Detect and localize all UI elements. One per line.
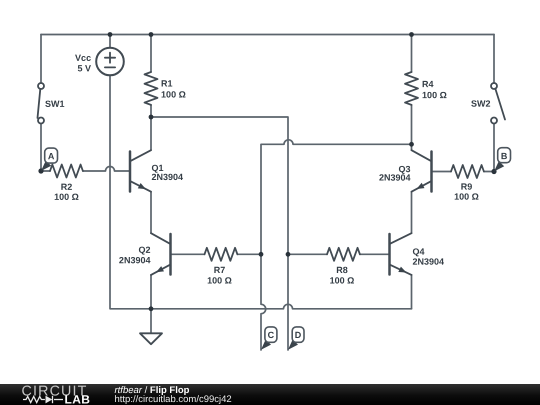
svg-text:B: B: [501, 151, 508, 161]
svg-text:5 V: 5 V: [78, 63, 92, 73]
svg-text:100 Ω: 100 Ω: [454, 192, 479, 202]
svg-text:100 Ω: 100 Ω: [161, 89, 186, 99]
svg-text:R7: R7: [214, 265, 226, 275]
svg-text:SW2: SW2: [471, 99, 491, 109]
svg-text:Q4: Q4: [412, 247, 424, 257]
svg-text:2N3904: 2N3904: [119, 255, 151, 265]
svg-text:100 Ω: 100 Ω: [207, 275, 232, 285]
svg-text:http://circuitlab.com/c99cj42: http://circuitlab.com/c99cj42: [115, 394, 232, 405]
svg-text:2N3904: 2N3904: [152, 172, 184, 182]
svg-text:SW1: SW1: [45, 99, 65, 109]
svg-text:R4: R4: [422, 79, 434, 89]
svg-text:Vcc: Vcc: [75, 53, 91, 63]
svg-text:A: A: [48, 151, 55, 161]
svg-text:R8: R8: [336, 265, 348, 275]
svg-text:Q2: Q2: [138, 245, 150, 255]
svg-text:R2: R2: [61, 182, 73, 192]
svg-text:100 Ω: 100 Ω: [54, 192, 79, 202]
svg-text:D: D: [295, 330, 302, 340]
svg-text:R1: R1: [161, 78, 173, 88]
svg-text:2N3904: 2N3904: [412, 257, 444, 267]
svg-text:2N3904: 2N3904: [379, 173, 411, 183]
svg-text:R9: R9: [461, 182, 473, 192]
svg-text:C: C: [268, 330, 275, 340]
svg-text:100 Ω: 100 Ω: [422, 90, 447, 100]
svg-text:LAB: LAB: [65, 392, 91, 405]
svg-text:100 Ω: 100 Ω: [330, 276, 355, 286]
